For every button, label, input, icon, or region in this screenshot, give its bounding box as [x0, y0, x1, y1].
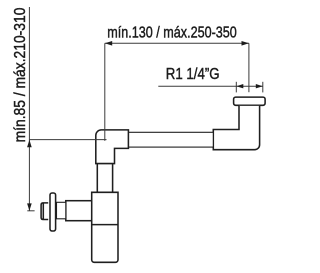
- top dim right arrow: [242, 41, 249, 46]
- right elbow pipe (vertical drop + sleeve): [213, 106, 259, 150]
- dimension lines: [27, 7, 262, 211]
- top dim right vertical extension: [248, 43, 250, 92]
- wall stub left: [41, 203, 48, 220]
- inlet wide section: [66, 201, 92, 221]
- left elbow body: [96, 130, 129, 164]
- svg-text:mín.130 / máx.250-350: mín.130 / máx.250-350: [107, 25, 237, 42]
- top dim line: [105, 42, 249, 44]
- svg-text:mín.85 / máx.210-310: mín.85 / máx.210-310: [12, 8, 29, 143]
- left dim vertical line: [28, 7, 30, 211]
- R tick right: [262, 82, 264, 93]
- stub cap line: [42, 203, 44, 220]
- R dim left-pointing arrow: [236, 84, 243, 88]
- inlet thin section: [57, 202, 66, 219]
- left dim down arrow: [27, 203, 32, 210]
- R leader line: [158, 85, 262, 87]
- vertical pipe below elbow: [97, 164, 112, 193]
- left dim up arrow: [27, 140, 32, 147]
- top dim left vertical extension: [104, 43, 106, 141]
- horizontal extension to elbow: [29, 139, 106, 141]
- horizontal pipe (thin section): [128, 132, 213, 147]
- left flange escutcheon: [50, 193, 56, 231]
- R dim right-pointing arrow: [256, 84, 263, 88]
- top dim left arrow: [105, 41, 112, 46]
- wall flange plate top-right: [234, 97, 266, 105]
- left dim bottom tick: [27, 210, 34, 212]
- svg-text:R1 1/4”G: R1 1/4”G: [166, 66, 220, 83]
- body divider line: [92, 224, 118, 226]
- bottle body: [92, 192, 118, 262]
- R tick left: [235, 82, 237, 93]
